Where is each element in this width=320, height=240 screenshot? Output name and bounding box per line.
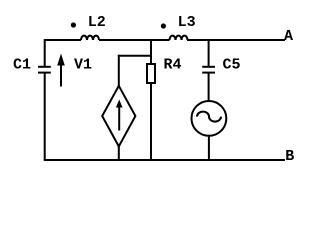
ac source circle bbox=[192, 101, 227, 136]
svg-text:A: A bbox=[284, 28, 293, 45]
resistor R4 bbox=[147, 64, 155, 83]
arrow V1 bbox=[57, 54, 65, 87]
wire top rail left segment bbox=[45, 39, 81, 41]
wire R4 branch bottom bbox=[150, 83, 152, 160]
wire diamond branch top bbox=[118, 55, 120, 87]
wire top rail middle segment bbox=[99, 39, 170, 41]
inductor L3 bbox=[170, 36, 188, 40]
current source diamond bbox=[102, 86, 135, 147]
wire C5 to source bbox=[208, 73, 210, 102]
svg-text:L2: L2 bbox=[88, 14, 106, 31]
arrow inside current source bbox=[116, 100, 123, 131]
inductor L2 bbox=[81, 36, 99, 40]
wire source bottom bbox=[208, 136, 210, 161]
ac source sine bbox=[197, 112, 221, 122]
wire R4 branch top bbox=[150, 39, 152, 64]
svg-text:R4: R4 bbox=[164, 57, 182, 74]
wire left vertical lower bbox=[44, 73, 46, 160]
svg-text:C5: C5 bbox=[223, 57, 241, 74]
dot L2 bbox=[71, 22, 76, 27]
svg-text:L3: L3 bbox=[178, 14, 196, 31]
dot L3 bbox=[161, 23, 166, 28]
wire C5 branch top bbox=[208, 39, 210, 67]
wire diamond branch bottom bbox=[118, 146, 120, 161]
wire bottom rail node B bbox=[44, 159, 285, 161]
wire left vertical upper bbox=[44, 39, 46, 67]
svg-text:V1: V1 bbox=[74, 57, 92, 74]
wire top rail right segment to node A bbox=[187, 39, 285, 41]
capacitor C1 bbox=[38, 67, 51, 73]
svg-text:B: B bbox=[285, 148, 294, 165]
wire branch horizontal bbox=[118, 55, 152, 57]
capacitor C5 bbox=[202, 67, 215, 73]
svg-text:C1: C1 bbox=[13, 57, 31, 74]
